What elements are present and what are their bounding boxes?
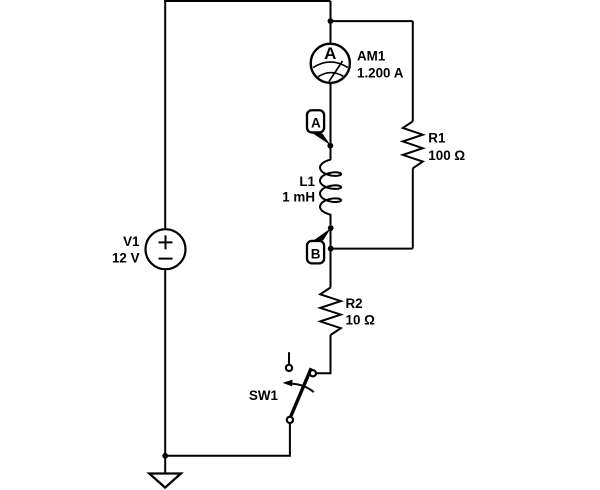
switch SW1 right terminal xyxy=(310,370,316,376)
svg-text:R2: R2 xyxy=(346,296,363,311)
node A dot xyxy=(327,143,333,149)
wire left vertical lower xyxy=(164,270,166,456)
junction dot node B branch xyxy=(328,246,334,252)
svg-text:AM1: AM1 xyxy=(357,49,386,64)
wire ammeter drop xyxy=(330,1,332,43)
V1 plus sign xyxy=(159,235,173,249)
node A box xyxy=(307,110,324,132)
wire R2 to switch xyxy=(316,335,331,373)
wire branch to R1 top xyxy=(331,20,413,22)
svg-text:100 Ω: 100 Ω xyxy=(428,148,465,163)
wire inductor to R2 xyxy=(330,214,332,288)
voltage source V1 xyxy=(146,229,186,269)
svg-text:V1: V1 xyxy=(123,234,140,249)
junction dot ground xyxy=(162,453,168,459)
wire switch open stub xyxy=(288,352,290,365)
wire R1 bottom branch to node B xyxy=(331,248,413,250)
svg-text:10 Ω: 10 Ω xyxy=(346,313,376,328)
svg-text:B: B xyxy=(311,246,321,261)
svg-text:SW1: SW1 xyxy=(249,388,279,403)
switch SW1 throw arc xyxy=(290,384,314,392)
node B dot xyxy=(328,225,334,231)
wire R1 upper lead xyxy=(412,21,414,121)
node B pointer wedge xyxy=(314,228,331,240)
resistor R2 xyxy=(320,288,341,336)
wire switch bottom to ground run xyxy=(165,423,290,456)
svg-text:R1: R1 xyxy=(428,131,446,146)
wire R1 lower lead xyxy=(412,168,414,248)
AM1 scale arc lower xyxy=(318,73,343,77)
svg-text:1 mH: 1 mH xyxy=(282,189,315,204)
svg-text:A: A xyxy=(324,44,336,63)
ammeter AM1 xyxy=(311,44,350,83)
junction dot top xyxy=(328,18,334,24)
wire ground stem xyxy=(164,456,166,473)
svg-text:1.200 A: 1.200 A xyxy=(357,66,404,81)
resistor R1 xyxy=(403,121,423,168)
AM1 scale arc upper xyxy=(313,62,348,68)
switch SW1 arrowhead xyxy=(283,380,293,387)
ground xyxy=(149,474,181,488)
svg-text:A: A xyxy=(311,116,321,131)
svg-text:12 V: 12 V xyxy=(112,251,140,266)
wire left vertical upper xyxy=(164,0,166,228)
node B box xyxy=(307,241,324,263)
inductor L1 xyxy=(320,160,341,215)
wire top horizontal xyxy=(164,0,330,2)
AM1 needle xyxy=(329,61,343,82)
wire ammeter to inductor xyxy=(330,84,332,160)
switch SW1 pivot terminal xyxy=(287,417,293,423)
V1 minus sign xyxy=(159,258,173,260)
node A pointer wedge xyxy=(313,133,331,145)
switch SW1 blade xyxy=(291,368,312,417)
svg-text:L1: L1 xyxy=(299,174,315,189)
switch SW1 open terminal xyxy=(286,365,292,371)
